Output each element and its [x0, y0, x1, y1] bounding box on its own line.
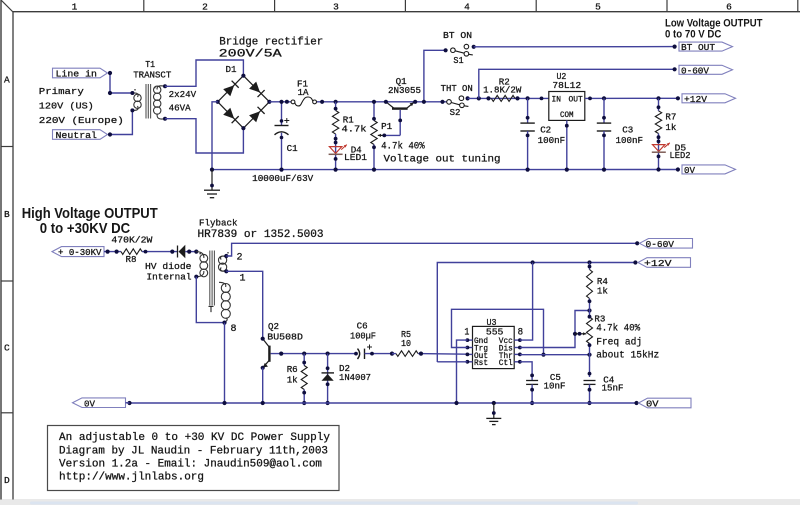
svg-text:8: 8	[231, 324, 237, 335]
svg-text:200V/5A: 200V/5A	[219, 49, 283, 61]
svg-text:R8: R8	[126, 254, 137, 265]
svg-text:0V: 0V	[84, 398, 95, 409]
svg-text:1: 1	[72, 1, 78, 12]
svg-text:10nF: 10nF	[544, 381, 566, 392]
svg-text:4.7k 40%: 4.7k 40%	[596, 323, 641, 335]
svg-text:S2: S2	[450, 107, 461, 118]
svg-text:Neutral: Neutral	[56, 130, 98, 141]
svg-text:0V: 0V	[646, 399, 659, 410]
svg-text:Flyback: Flyback	[199, 218, 238, 229]
svg-text:Version 1.2a - Email: Jnaudin5: Version 1.2a - Email: Jnaudin509@aol.com	[59, 458, 322, 470]
svg-text:Q2: Q2	[268, 321, 279, 332]
svg-text:3: 3	[333, 1, 339, 12]
svg-text:555: 555	[486, 327, 504, 338]
svg-text:2N3055: 2N3055	[388, 85, 421, 96]
svg-text:Internal: Internal	[147, 272, 192, 283]
svg-text:D: D	[4, 475, 10, 486]
svg-text:1k: 1k	[597, 286, 608, 297]
svg-text:Line in: Line in	[56, 69, 98, 80]
svg-text:Diagram by JL Naudin - Februar: Diagram by JL Naudin - February 11th,200…	[59, 445, 328, 457]
svg-text:TRANSCT: TRANSCT	[133, 69, 172, 80]
svg-text:A: A	[4, 74, 10, 85]
svg-text:BU508D: BU508D	[267, 332, 303, 343]
svg-text:R6: R6	[287, 364, 298, 375]
svg-text:C: C	[4, 342, 10, 353]
svg-text:0-60V: 0-60V	[681, 65, 709, 76]
svg-text:4.7k 40%: 4.7k 40%	[381, 141, 425, 153]
svg-text:An adjustable 0 to +30 KV DC P: An adjustable 0 to +30 KV DC Power Suppl…	[59, 432, 330, 444]
svg-text:+12V: +12V	[644, 258, 672, 269]
svg-text:about 15kHz: about 15kHz	[596, 350, 659, 362]
svg-text:Primary: Primary	[39, 86, 85, 97]
svg-text:P1: P1	[381, 121, 392, 132]
svg-text:B: B	[4, 209, 10, 220]
svg-text:1.8K/2W: 1.8K/2W	[483, 85, 522, 96]
svg-text:4: 4	[464, 1, 470, 12]
svg-text:0 to 70 V DC: 0 to 70 V DC	[665, 29, 721, 41]
svg-text:+ 0-30KV: + 0-30KV	[58, 247, 102, 258]
svg-text:1: 1	[464, 327, 469, 338]
svg-text:2x24V: 2x24V	[169, 89, 197, 100]
svg-text:T1: T1	[145, 59, 155, 70]
svg-text:THT ON: THT ON	[441, 83, 473, 94]
svg-text:0-60V: 0-60V	[646, 239, 675, 250]
svg-text:1: 1	[240, 273, 246, 284]
svg-text:6: 6	[726, 1, 732, 12]
svg-text:120V (US): 120V (US)	[39, 101, 94, 112]
svg-text:D1: D1	[226, 64, 237, 75]
svg-text:Freq adj: Freq adj	[596, 337, 642, 349]
svg-text:0V: 0V	[684, 165, 695, 176]
svg-text:470K/2W: 470K/2W	[111, 235, 153, 246]
svg-text:OUT: OUT	[569, 96, 583, 105]
svg-text:Rst: Rst	[474, 359, 488, 368]
svg-text:+12V: +12V	[684, 94, 707, 105]
svg-text:78L12: 78L12	[552, 80, 581, 91]
svg-text:C3: C3	[622, 125, 633, 136]
svg-text:4.7k: 4.7k	[342, 124, 368, 135]
svg-text:220V (Europe): 220V (Europe)	[39, 115, 124, 126]
svg-text:46VA: 46VA	[169, 103, 191, 114]
svg-text:HR7839 or 1352.5003: HR7839 or 1352.5003	[198, 229, 324, 241]
svg-text:Voltage out tuning: Voltage out tuning	[384, 154, 501, 166]
svg-text:C2: C2	[540, 125, 551, 136]
svg-text:R7: R7	[665, 112, 676, 123]
svg-text:LED2: LED2	[670, 150, 691, 161]
svg-text:100nF: 100nF	[538, 135, 566, 146]
svg-text:Bridge rectifier: Bridge rectifier	[219, 36, 323, 48]
svg-text:Low Voltage OUTPUT: Low Voltage OUTPUT	[665, 18, 763, 30]
svg-text:COM: COM	[560, 111, 574, 120]
svg-text:IN: IN	[552, 96, 562, 105]
svg-text:1A: 1A	[298, 87, 309, 98]
svg-text:100µF: 100µF	[350, 331, 376, 342]
svg-text:http://www.jlnlabs.org: http://www.jlnlabs.org	[59, 471, 204, 483]
svg-text:BT OUT: BT OUT	[681, 42, 715, 53]
svg-text:10: 10	[401, 338, 411, 349]
svg-text:15nF: 15nF	[602, 383, 624, 394]
svg-text:8: 8	[518, 327, 524, 338]
svg-text:C1: C1	[287, 143, 298, 154]
svg-text:2: 2	[237, 252, 243, 263]
svg-text:100nF: 100nF	[616, 135, 644, 146]
svg-text:1k: 1k	[287, 375, 298, 386]
svg-text:1N4007: 1N4007	[339, 372, 371, 383]
svg-text:1k: 1k	[665, 122, 676, 133]
svg-text:LED1: LED1	[344, 152, 367, 163]
svg-text:2: 2	[202, 1, 208, 12]
svg-text:BT ON: BT ON	[443, 30, 472, 41]
svg-text:5: 5	[595, 1, 601, 12]
svg-text:T: T	[208, 304, 214, 315]
svg-text:S1: S1	[453, 55, 464, 66]
svg-text:Ctl: Ctl	[499, 359, 513, 368]
svg-text:10000uF/63V: 10000uF/63V	[252, 173, 313, 184]
svg-text:HV diode: HV diode	[145, 261, 192, 272]
